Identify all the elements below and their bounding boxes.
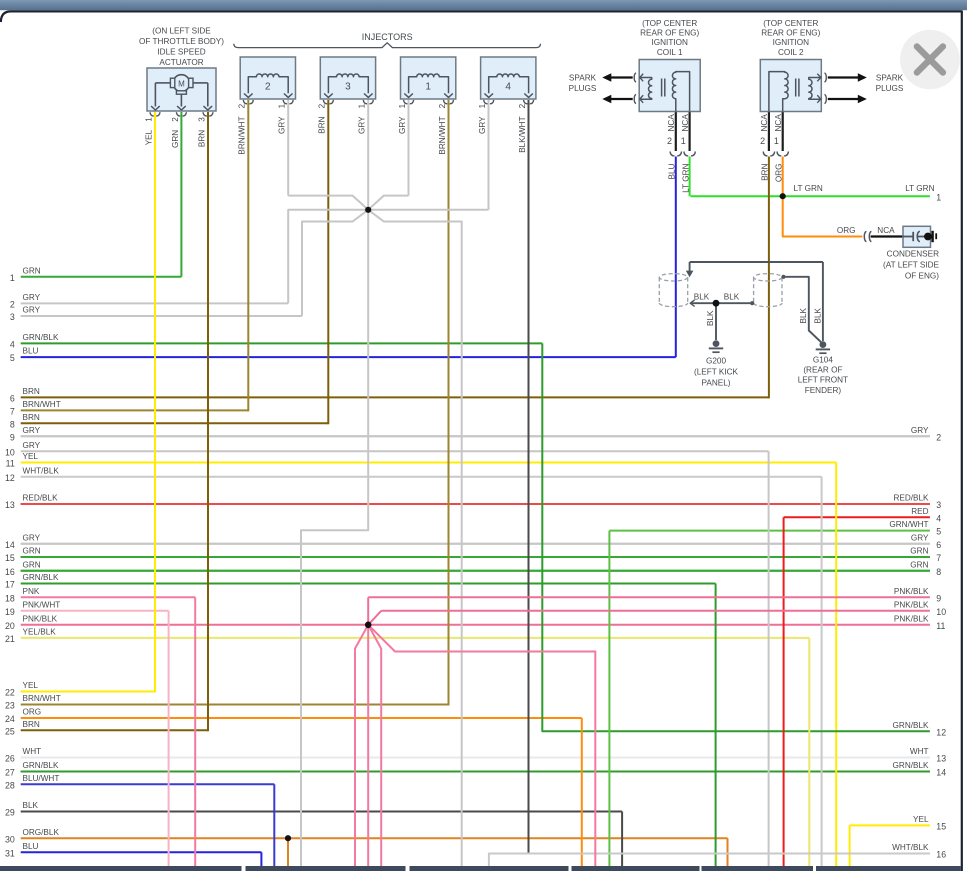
wire 27 GRN/BLK (left) — [5, 761, 930, 778]
svg-text:FENDER): FENDER) — [805, 386, 842, 395]
wire 14 GRN/BLK (right) — [21, 761, 946, 778]
svg-text:LT GRN: LT GRN — [794, 184, 823, 193]
svg-text:GRN: GRN — [23, 547, 41, 556]
wire 24 ORG (left) — [5, 708, 582, 725]
svg-text:10: 10 — [5, 447, 15, 457]
wire 19 PNK/WHT (left) — [5, 600, 169, 617]
bottom bar segments — [0, 866, 242, 871]
wire 1 LT GRN (right) — [691, 184, 942, 203]
wire 13 RED/BLK (left) — [5, 494, 930, 511]
wire 7 GRN (right) — [21, 547, 942, 564]
wire YEL right 15 vertical down — [849, 825, 851, 867]
svg-text:2: 2 — [518, 103, 527, 108]
svg-text:7: 7 — [10, 407, 15, 417]
svg-text:8: 8 — [10, 419, 15, 429]
injector 4 pin connectors + labels — [484, 100, 494, 104]
wire 11 YEL (left) — [6, 452, 837, 469]
wire PNK 18 vertical down — [194, 597, 196, 867]
wire BRN/WHT vertical injector2 pin2 to wire 7 — [247, 100, 249, 411]
wire WHT/BLK 12 vertical down — [821, 477, 823, 867]
svg-text:REAR OF ENG): REAR OF ENG) — [761, 29, 820, 38]
wire LT GRN coil1 pin1 to right edge — [689, 157, 691, 197]
wire 2 GRY (left) — [10, 293, 288, 310]
svg-text:22: 22 — [5, 688, 15, 698]
dashed connector cylinder (right) — [754, 274, 782, 307]
wire 4 GRN/BLK (left) — [10, 333, 542, 350]
svg-text:2: 2 — [318, 103, 327, 108]
svg-text:BRN: BRN — [318, 116, 327, 133]
ignition coil COIL 2 — [760, 60, 867, 112]
svg-text:BLK/WHT: BLK/WHT — [518, 116, 527, 152]
svg-text:OF ENG): OF ENG) — [905, 271, 939, 280]
svg-text:26: 26 — [5, 754, 15, 764]
svg-text:15: 15 — [936, 822, 946, 832]
svg-text:GRN/BLK: GRN/BLK — [893, 761, 929, 770]
wire 4 RED (right) — [784, 507, 942, 524]
svg-text:PNK/BLK: PNK/BLK — [894, 614, 929, 623]
wire 12 GRN/BLK (right) — [893, 721, 947, 738]
svg-text:YEL: YEL — [145, 129, 154, 145]
svg-text:28: 28 — [5, 780, 15, 790]
svg-text:GRN: GRN — [910, 560, 928, 569]
svg-text:GRN: GRN — [23, 560, 41, 569]
junction dot (gray net) — [365, 207, 371, 213]
svg-text:GRN/BLK: GRN/BLK — [893, 721, 929, 730]
svg-text:25: 25 — [5, 726, 15, 736]
wire 11 PNK/BLK (right) — [894, 614, 946, 631]
wire 9 GRY (left) — [10, 426, 930, 443]
svg-text:BRN/WHT: BRN/WHT — [438, 116, 447, 154]
BLK wire between connectors with G200 tap — [690, 300, 754, 340]
wire PNK/WHT 19 vertical down — [168, 611, 170, 867]
svg-text:COIL 2: COIL 2 — [778, 48, 804, 57]
svg-text:4: 4 — [505, 82, 511, 93]
ground symbol G104 — [816, 341, 830, 353]
svg-text:3: 3 — [936, 500, 941, 510]
svg-text:3: 3 — [10, 312, 15, 322]
wire ORG/BLK 30 verticals down — [287, 838, 289, 867]
svg-text:31: 31 — [5, 848, 15, 858]
svg-text:PLUGS: PLUGS — [876, 84, 904, 93]
wire 15 YEL (right) — [850, 815, 947, 832]
svg-text:GRN/WHT: GRN/WHT — [889, 520, 928, 529]
svg-text:YEL: YEL — [913, 815, 929, 824]
junction dot G200 tap — [713, 300, 720, 307]
coil 2 pin stubs (black) — [768, 112, 770, 152]
svg-text:PNK/WHT: PNK/WHT — [23, 600, 61, 609]
svg-text:BRN: BRN — [23, 387, 40, 396]
wire 17 GRN/BLK (left) — [5, 573, 716, 590]
svg-text:(AT LEFT SIDE: (AT LEFT SIDE — [883, 260, 939, 269]
svg-text:GRN/BLK: GRN/BLK — [23, 333, 59, 342]
svg-text:NCA: NCA — [877, 226, 895, 235]
wire 30 ORG/BLK (left) — [5, 828, 727, 845]
svg-text:WHT/BLK: WHT/BLK — [892, 843, 929, 852]
wire 16 GRN (left) — [5, 560, 930, 577]
BLK wires to G104 — [781, 275, 821, 343]
svg-text:11: 11 — [936, 621, 945, 631]
svg-text:GRN/BLK: GRN/BLK — [23, 573, 59, 582]
svg-text:16: 16 — [5, 567, 15, 577]
svg-text:G104: G104 — [813, 355, 833, 364]
svg-text:COIL 1: COIL 1 — [657, 48, 683, 57]
svg-text:1: 1 — [358, 103, 367, 108]
condenser NCA lead — [871, 235, 903, 237]
wire BLK 29 vertical down — [621, 812, 623, 868]
svg-text:30: 30 — [5, 834, 15, 844]
svg-text:BRN: BRN — [23, 413, 40, 422]
wire 23 BRN/WHT (left) — [5, 694, 448, 711]
wire 7 BRN/WHT (left) — [10, 400, 248, 417]
injector 1 pin connectors + labels — [404, 100, 414, 104]
svg-text:RED: RED — [911, 507, 928, 516]
svg-text:PNK/BLK: PNK/BLK — [894, 600, 929, 609]
svg-text:RED/BLK: RED/BLK — [893, 494, 929, 503]
svg-text:2: 2 — [238, 103, 247, 108]
svg-text:GRY: GRY — [23, 441, 41, 450]
svg-text:BLK: BLK — [694, 293, 710, 302]
svg-text:5: 5 — [10, 353, 15, 363]
svg-text:19: 19 — [5, 607, 15, 617]
wire BLU 31 vertical down — [260, 852, 262, 867]
svg-text:3: 3 — [198, 117, 207, 122]
svg-text:ACTUATOR: ACTUATOR — [159, 58, 203, 67]
wire 31 BLU (left) — [5, 842, 261, 859]
svg-text:1: 1 — [425, 82, 431, 93]
svg-text:2: 2 — [760, 136, 765, 146]
wire GRN/BLK 17 vertical down — [715, 584, 717, 868]
wire 26 WHT (left) — [5, 747, 930, 764]
ignition coil COIL 1 — [602, 60, 700, 112]
svg-text:WHT/BLK: WHT/BLK — [23, 466, 60, 475]
svg-text:GRY: GRY — [478, 116, 487, 134]
svg-text:2: 2 — [265, 82, 271, 93]
junction dot wire 30 — [285, 835, 291, 841]
dashed connector cylinder (left) — [659, 274, 687, 307]
svg-text:BRN/WHT: BRN/WHT — [23, 694, 61, 703]
svg-text:IGNITION: IGNITION — [773, 38, 809, 47]
svg-text:11: 11 — [6, 459, 15, 469]
svg-text:2: 2 — [667, 136, 672, 146]
svg-text:(REAR OF: (REAR OF — [803, 366, 842, 375]
svg-text:18: 18 — [5, 593, 15, 603]
motor symbol M — [151, 75, 212, 110]
svg-text:GRY: GRY — [911, 426, 929, 435]
svg-text:1: 1 — [681, 136, 686, 146]
wire 5 BLU (left) — [10, 347, 676, 364]
wire WHT/BLK right 16 horizontal + stub down — [489, 854, 930, 868]
wire 12 WHT/BLK (left) — [5, 466, 822, 483]
svg-text:WHT: WHT — [23, 747, 42, 756]
injector 2 pin connectors + labels — [243, 100, 253, 104]
svg-text:6: 6 — [10, 394, 15, 404]
svg-text:BLK: BLK — [799, 307, 808, 323]
svg-text:2: 2 — [936, 432, 941, 442]
wire RED right 4 vertical down — [783, 517, 785, 867]
svg-text:WHT: WHT — [910, 747, 929, 756]
svg-text:G200: G200 — [706, 357, 726, 366]
svg-text:SPARK: SPARK — [569, 74, 597, 83]
svg-text:GRN/BLK: GRN/BLK — [23, 761, 59, 770]
svg-text:(LEFT KICK: (LEFT KICK — [694, 368, 739, 377]
wire YEL vertical from idle actuator pin 1 to wire 22 — [154, 112, 156, 693]
svg-text:15: 15 — [5, 553, 15, 563]
svg-text:GRY: GRY — [911, 533, 929, 542]
svg-text:GRN: GRN — [23, 266, 41, 275]
wire 15 GRN (left) — [5, 547, 930, 564]
svg-text:2: 2 — [10, 300, 15, 310]
svg-text:INJECTORS: INJECTORS — [362, 32, 413, 42]
svg-text:BRN: BRN — [23, 720, 40, 729]
wire 5 GRN/WHT (right) — [609, 520, 941, 537]
svg-text:BRN: BRN — [761, 163, 770, 180]
junction dot LT GRN / ORG — [780, 193, 786, 199]
svg-text:14: 14 — [936, 768, 946, 778]
svg-text:SPARK: SPARK — [876, 74, 904, 83]
coil 1 pin stubs (black) — [675, 112, 677, 152]
svg-text:GRY: GRY — [23, 426, 41, 435]
injector 4 — [481, 57, 536, 99]
svg-text:CONDENSER: CONDENSER — [887, 249, 939, 258]
svg-text:ORG: ORG — [837, 226, 856, 235]
condenser connector arcs (( — [864, 231, 866, 241]
svg-text:BLU/WHT: BLU/WHT — [23, 774, 60, 783]
wire 8 GRN (right) — [21, 560, 942, 577]
wire 10 PNK/BLK (right) — [894, 600, 946, 617]
svg-text:BRN/WHT: BRN/WHT — [238, 116, 247, 154]
wire BLU/WHT 28 vertical down — [273, 784, 275, 867]
svg-text:(TOP CENTER: (TOP CENTER — [763, 19, 818, 28]
svg-text:6: 6 — [936, 540, 941, 550]
INJECTORS brace + caption — [234, 43, 541, 48]
injector 3 — [320, 57, 375, 99]
svg-text:YEL: YEL — [23, 452, 39, 461]
svg-text:29: 29 — [5, 808, 15, 818]
wire 13 WHT (right) — [21, 747, 946, 764]
wire 22 YEL (left) — [5, 681, 155, 698]
svg-text:LT GRN: LT GRN — [681, 163, 690, 192]
svg-text:GRY: GRY — [358, 116, 367, 134]
svg-text:27: 27 — [5, 768, 15, 778]
svg-text:GRY: GRY — [278, 116, 287, 134]
wire 3 GRY (left) — [10, 306, 302, 323]
wire BLU coil1 pin2 down to wire 5 — [675, 157, 677, 358]
condenser capacitor symbol — [903, 231, 936, 242]
svg-text:PNK/BLK: PNK/BLK — [23, 614, 58, 623]
svg-text:LT GRN: LT GRN — [905, 184, 934, 193]
svg-text:2: 2 — [171, 117, 180, 122]
svg-text:13: 13 — [936, 754, 946, 764]
condenser box — [903, 226, 931, 247]
svg-text:RED/BLK: RED/BLK — [23, 494, 59, 503]
wire GRY 10 vertical down — [768, 451, 770, 867]
wire GRN/BLK 4 vertical + to right wire 12 — [542, 343, 930, 731]
wire BRN vertical injector3 pin2 to wire 8 — [327, 100, 329, 424]
svg-text:IGNITION: IGNITION — [652, 38, 688, 47]
wire YEL/BLK 21 vertical down — [808, 638, 810, 867]
svg-text:8: 8 — [936, 567, 941, 577]
svg-text:10: 10 — [936, 607, 946, 617]
wire ORG 24 vertical down — [581, 718, 583, 867]
wire 2 GRY (right) — [21, 426, 942, 443]
wire 29 BLK (left) — [5, 801, 622, 818]
wire 18 PNK (left) — [5, 587, 195, 604]
wire GRN vertical from idle actuator pin 2 to wire 1 — [180, 112, 182, 277]
top toolbar bar — [0, 0, 967, 10]
svg-text:BLU: BLU — [668, 163, 677, 179]
svg-text:BRN: BRN — [198, 130, 207, 147]
svg-text:5: 5 — [936, 527, 941, 537]
BLK ground bus — [686, 262, 823, 341]
svg-text:3: 3 — [345, 82, 351, 93]
svg-text:NCA: NCA — [681, 114, 690, 132]
svg-text:GRY: GRY — [23, 306, 41, 315]
wire 10 GRY (left) — [5, 441, 769, 458]
wire 8 BRN (left) — [10, 413, 328, 430]
wire BLK/WHT vertical injector4 pin2 down to wire 16 right — [528, 100, 530, 854]
svg-text:1: 1 — [478, 103, 487, 108]
svg-text:GRY: GRY — [23, 533, 41, 542]
svg-text:BLK: BLK — [724, 293, 740, 302]
svg-text:9: 9 — [936, 593, 941, 603]
svg-text:GRN: GRN — [171, 130, 180, 148]
injector 2 — [240, 57, 295, 99]
wire 21 YEL/BLK (left) — [5, 628, 809, 645]
svg-text:14: 14 — [5, 540, 15, 550]
svg-text:BRN/WHT: BRN/WHT — [23, 400, 61, 409]
svg-text:GRY: GRY — [23, 293, 41, 302]
svg-text:1: 1 — [774, 136, 779, 146]
svg-text:PNK/BLK: PNK/BLK — [894, 587, 929, 596]
idle speed actuator box — [147, 68, 216, 111]
wire BRN/WHT vertical injector1 pin2 to wire 23 — [448, 100, 450, 706]
svg-text:17: 17 — [5, 580, 15, 590]
svg-text:PNK: PNK — [23, 587, 40, 596]
ground symbol G200 — [709, 340, 723, 352]
wire GRN/WHT right 5 vertical down — [608, 531, 610, 867]
svg-text:20: 20 — [5, 621, 15, 631]
svg-text:21: 21 — [5, 634, 15, 644]
svg-text:2: 2 — [438, 103, 447, 108]
wire 20 PNK/BLK (left) — [5, 614, 930, 631]
wire 1 GRN (left) — [10, 266, 182, 283]
wire 9 PNK/BLK (right) — [894, 587, 941, 604]
wire BRN coil2 pin2 down to wire 6 — [768, 157, 770, 399]
wire 14 GRY (left) — [5, 533, 930, 550]
gray injector net: junction and arms — [288, 100, 488, 867]
svg-text:16: 16 — [936, 850, 946, 860]
svg-text:(ON LEFT SIDE: (ON LEFT SIDE — [152, 27, 211, 36]
svg-text:NCA: NCA — [760, 114, 769, 132]
svg-text:7: 7 — [936, 553, 941, 563]
svg-text:NCA: NCA — [774, 114, 783, 132]
svg-text:1: 1 — [278, 103, 287, 108]
wire 6 GRY (right) — [21, 533, 942, 550]
svg-text:OF THROTTLE BODY): OF THROTTLE BODY) — [139, 37, 224, 46]
injector 3 pin connectors + labels — [323, 100, 333, 104]
svg-text:M: M — [178, 79, 185, 88]
svg-text:(TOP CENTER: (TOP CENTER — [642, 19, 697, 28]
pink junction dot — [365, 622, 372, 629]
close button — [900, 30, 960, 90]
svg-text:ORG: ORG — [23, 708, 42, 717]
svg-text:9: 9 — [10, 432, 15, 442]
svg-text:BLU: BLU — [23, 347, 39, 356]
svg-text:PLUGS: PLUGS — [569, 84, 597, 93]
wire ORG coil2 pin1 down to condenser lead — [783, 157, 863, 237]
svg-text:GRY: GRY — [398, 116, 407, 134]
actuator pin connector arcs — [150, 112, 160, 116]
pink junction net — [355, 597, 930, 867]
svg-text:13: 13 — [5, 500, 15, 510]
svg-text:GRN: GRN — [910, 547, 928, 556]
wire YEL 11 vertical down — [835, 463, 837, 868]
svg-text:4: 4 — [936, 513, 941, 523]
svg-text:PANEL): PANEL) — [702, 379, 731, 388]
wire 28 BLU/WHT (left) — [5, 774, 274, 791]
svg-text:12: 12 — [936, 727, 946, 737]
wire 25 BRN (left) — [5, 720, 208, 737]
svg-text:BLK: BLK — [23, 801, 39, 810]
wire 16 WHT/BLK (right) — [489, 843, 946, 860]
svg-text:BLK: BLK — [813, 307, 822, 323]
wire 6 BRN (left) — [10, 387, 769, 404]
svg-text:24: 24 — [5, 714, 15, 724]
wire BRN vertical from idle actuator pin 3 to wire 25 — [207, 112, 209, 731]
svg-text:23: 23 — [5, 701, 15, 711]
svg-text:1: 1 — [398, 103, 407, 108]
svg-text:12: 12 — [5, 473, 15, 483]
wire 3 RED/BLK (right) — [21, 494, 942, 511]
coil pin connector arcs — [670, 152, 682, 156]
svg-text:1: 1 — [10, 273, 15, 283]
svg-text:IDLE SPEED: IDLE SPEED — [157, 48, 205, 57]
svg-text:YEL: YEL — [23, 681, 39, 690]
svg-text:1: 1 — [145, 117, 154, 122]
svg-text:BLK: BLK — [706, 310, 715, 326]
svg-text:1: 1 — [936, 192, 941, 202]
svg-text:NCA: NCA — [667, 114, 676, 132]
svg-text:ORG/BLK: ORG/BLK — [23, 828, 60, 837]
svg-text:LEFT FRONT: LEFT FRONT — [798, 376, 848, 385]
svg-text:REAR OF ENG): REAR OF ENG) — [640, 29, 699, 38]
injector 1 — [401, 57, 456, 99]
svg-text:YEL/BLK: YEL/BLK — [23, 628, 57, 637]
svg-text:BLU: BLU — [23, 842, 39, 851]
svg-text:4: 4 — [10, 340, 15, 350]
svg-text:ORG: ORG — [774, 164, 783, 183]
